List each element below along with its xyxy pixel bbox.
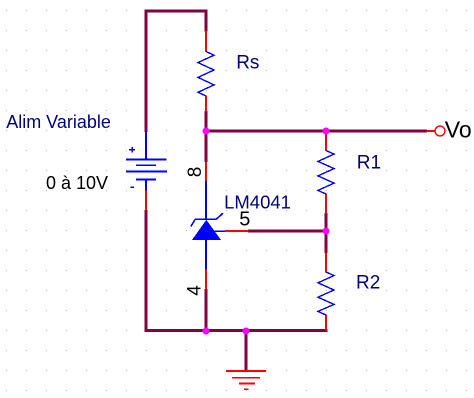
terminal Vo lead (red) <box>427 130 436 132</box>
resistor R2 pin bottom (red) <box>325 315 327 331</box>
svg-text:5: 5 <box>239 209 250 231</box>
wire node A to Vo terminal <box>206 130 427 133</box>
svg-text:R2: R2 <box>356 273 380 294</box>
svg-text:0 à 10V: 0 à 10V <box>46 173 108 193</box>
svg-text:Alim Variable: Alim Variable <box>6 112 111 132</box>
ground bar 1 <box>226 370 266 372</box>
diode U1 triangle <box>192 220 221 240</box>
resistor R1 pin bottom (red) <box>325 194 327 214</box>
resistor Rs pin bottom (red) <box>205 96 207 112</box>
resistor R2 body zigzag <box>318 272 334 315</box>
battery plus sign <box>129 147 135 153</box>
svg-text:Rs: Rs <box>236 53 259 74</box>
diode U1 cathode lead (blue) <box>205 181 207 220</box>
battery bottom lead (blue) <box>145 180 147 192</box>
wire top-left loop: battery top to Rs top <box>146 11 206 132</box>
diode U1 cathode bar left tick <box>191 219 195 226</box>
node B junction dot <box>323 228 330 235</box>
battery bottom pin (red) <box>145 191 147 211</box>
wire pin5 to node B <box>248 230 326 233</box>
wire battery bottom to bottom rail <box>146 210 328 331</box>
bottom rail junction dot left <box>203 328 210 335</box>
node A junction dot <box>203 128 210 135</box>
svg-text:8: 8 <box>185 167 206 178</box>
battery plate short 2 <box>136 179 156 181</box>
resistor R1 pin top (red) <box>325 132 327 151</box>
bottom rail junction dot right <box>243 328 250 335</box>
resistor Rs pin top (red) <box>205 31 207 52</box>
diode U1 pin5 (red) <box>225 230 249 232</box>
diode U1 LM4041 top pin (red) <box>205 162 207 182</box>
diode U1 cathode bar right tick <box>216 213 223 219</box>
resistor R2 pin top (red) <box>325 253 327 273</box>
wire ground stem <box>245 332 248 370</box>
wire R1 bottom / R2 top stub at node B <box>325 213 328 253</box>
battery plate long 1 <box>126 159 167 161</box>
diode U1 bottom pin (red) <box>205 270 207 290</box>
svg-text:4: 4 <box>185 285 206 296</box>
svg-text:LM4041: LM4041 <box>224 191 291 212</box>
battery minus sign <box>130 186 134 188</box>
ground bar 2 <box>232 377 260 379</box>
resistor R1 body zigzag <box>318 151 334 195</box>
battery plate short 1 <box>136 164 156 166</box>
ground bar 3 <box>239 382 255 384</box>
wire Rs bottom to node A <box>205 111 208 162</box>
ground bar 4 <box>244 388 249 390</box>
resistor Rs body zigzag <box>198 52 214 97</box>
diode U1 cathode bar <box>195 218 216 220</box>
svg-text:R1: R1 <box>357 153 381 174</box>
node A-right junction dot <box>323 128 330 135</box>
diode U1 pin5 stub (blue) <box>214 230 226 232</box>
battery plate long 2 <box>126 171 167 173</box>
diode U1 anode lead (blue) <box>205 240 207 270</box>
wire diode anode to bottom rail <box>205 289 208 332</box>
battery B1 top lead (blue) <box>145 132 147 160</box>
terminal Vo circle <box>435 126 445 136</box>
svg-text:Vo: Vo <box>445 117 472 143</box>
